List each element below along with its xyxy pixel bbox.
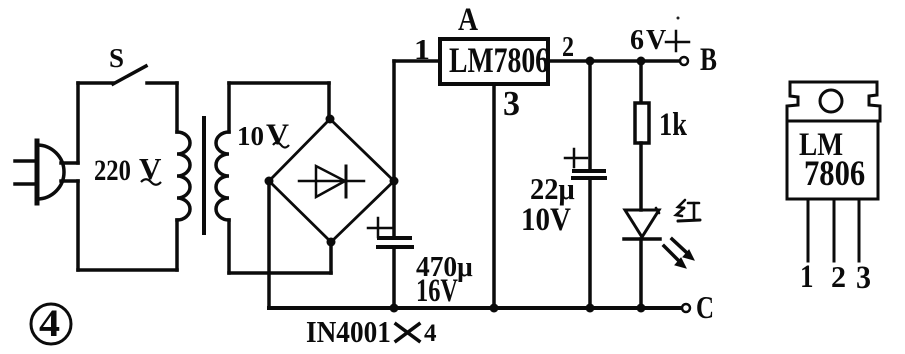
svg-text:V: V — [646, 25, 666, 56]
svg-text:2: 2 — [562, 30, 574, 63]
svg-text:1k: 1k — [659, 106, 687, 142]
svg-text:IN4001: IN4001 — [306, 315, 391, 349]
svg-text:S: S — [109, 43, 124, 73]
svg-text:3: 3 — [856, 259, 871, 296]
svg-text:1: 1 — [414, 33, 430, 65]
svg-text:10: 10 — [237, 121, 264, 151]
svg-text:4: 4 — [424, 320, 437, 347]
svg-text:1: 1 — [800, 257, 814, 294]
svg-text:10V: 10V — [521, 200, 572, 237]
svg-text:16V: 16V — [416, 273, 458, 309]
svg-text:A: A — [458, 1, 478, 38]
svg-text:6: 6 — [630, 25, 644, 56]
svg-text:4: 4 — [39, 301, 60, 344]
svg-text:LM7806: LM7806 — [449, 40, 549, 80]
svg-text:C: C — [696, 290, 714, 326]
svg-text:220: 220 — [94, 154, 131, 187]
svg-text:B: B — [700, 42, 717, 78]
svg-text:V: V — [266, 117, 289, 151]
svg-text:3: 3 — [503, 85, 520, 124]
svg-text:7806: 7806 — [804, 154, 865, 194]
svg-text:2: 2 — [831, 260, 846, 295]
